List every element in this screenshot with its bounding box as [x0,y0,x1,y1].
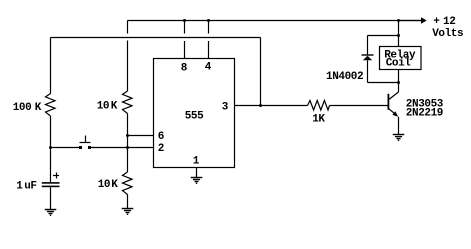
wire vertical x=260 from rail2 down to pin3 row [260,38,262,106]
wire second rail y=37 [51,37,261,39]
wire pin1 stub below 555 [196,168,198,178]
wire pin8 vertical upper segment [184,21,186,34]
ground under pin 1 [191,178,203,184]
svg-text:K: K [111,101,118,113]
ground under transistor emitter [393,135,405,141]
wire pin8 vertical lower segment [184,41,186,59]
wire relay drop from rail to relay box [398,21,400,47]
svg-text:1: 1 [16,181,23,193]
wire vertical x=127 from bottom 10K to ground [127,195,129,209]
svg-text:4: 4 [205,62,212,74]
svg-text:uF: uF [24,181,36,193]
node junction dot pin4 on top rail [207,19,210,22]
ground under bottom 10K [122,209,134,215]
svg-text:1K: 1K [312,114,325,126]
svg-text:Coil: Coil [386,57,412,69]
node junction dot +12 feed at (398,20) [397,19,400,22]
wire diode bottom horizontal y=81 [368,82,399,84]
resistor R 10K bottom zigzag [123,172,133,195]
node junction dot at (398,81) [397,81,400,84]
wire below capacitor to ground [50,187,52,209]
resistor R 1K zigzag [308,101,330,111]
svg-text:555: 555 [185,111,204,123]
wire +12 rail to arrow [399,20,422,22]
op 555 timer IC box U1 [154,59,235,168]
diode D1 1N4002 cathode bar [362,54,374,56]
wire vertical x=127 from 10K to bottom 10K (through pin6/pin2 tees) [127,114,129,173]
node junction dot pin8 on top rail [183,19,186,22]
svg-text:K: K [111,179,118,191]
transistor Q1 collector diagonal [389,92,399,100]
wire pin2 row right segment from switch to 555 [91,147,154,149]
transistor Q1 emitter arrowhead [392,111,398,117]
node junction dot diode tee at (398,35) [397,34,400,37]
wire diode upper vertical [367,36,369,56]
svg-text:+: + [433,16,440,28]
switch S1 right contact [88,146,91,149]
svg-text:Volts: Volts [432,28,463,40]
switch S1 actuator stem [85,136,87,143]
transistor Q1 collector vertical [398,83,400,93]
svg-text:1: 1 [193,156,200,168]
svg-text:1N4002: 1N4002 [326,71,363,83]
wire pin2 row left segment from (50,147) to switch [51,147,80,149]
svg-text:10: 10 [97,101,109,113]
transistor Q1 emitter diagonal [389,109,397,116]
ground under capacitor [45,210,57,216]
svg-text:2: 2 [158,143,164,155]
svg-text:2N2219: 2N2219 [406,108,443,120]
switch S1 actuator bar [80,142,91,144]
wire pin3 row from 555 to 1K [235,105,308,107]
wire vertical x=127 from top rail to 10K (gap at rail crossing) [127,21,129,34]
wire diode lower vertical [367,60,369,82]
wire pin4 vertical lower segment [208,41,210,59]
arrow +12 supply [421,17,427,23]
wire pin4 vertical upper segment [208,21,210,34]
svg-text:3: 3 [222,102,229,114]
wire top +12V rail [128,20,422,22]
diode D1 1N4002 triangle [363,56,372,61]
wire relay box bottom to collector node [398,70,400,83]
node junction dot at (260,104) [259,104,262,107]
node junction dot at (50,147) [49,146,52,149]
switch S1 left contact [79,146,82,149]
svg-text:K: K [35,102,42,114]
wire vertical x=50 from 100K down to capacitor [50,116,52,183]
transistor Q1 emitter vertical to ground [398,117,400,135]
wire vertical x=50 from rail2 to 100K [50,38,52,94]
svg-text:100: 100 [13,102,32,114]
transistor Q1 base bar [388,94,390,110]
relay K1 coil box [380,47,422,70]
wire pin6 from (127,135) to 555 [128,135,154,137]
resistor R 10K top zigzag [123,91,133,114]
node junction dot pin6 tee at (127,135) [126,134,129,137]
resistor R 100K zigzag [46,94,56,117]
svg-text:12: 12 [443,16,455,28]
node junction dot pin2 tee at (127,147) [126,146,129,149]
svg-text:6: 6 [158,131,164,143]
wire from 1K to transistor base [330,105,388,107]
svg-text:10: 10 [98,179,110,191]
wire vertical x=127 below crossing gap [127,41,129,92]
capacitor plus polarity mark [53,175,59,177]
svg-text:8: 8 [181,63,188,75]
capacitor C1 1uF plates [42,182,60,184]
wire diode top horizontal y=35 [368,35,399,37]
